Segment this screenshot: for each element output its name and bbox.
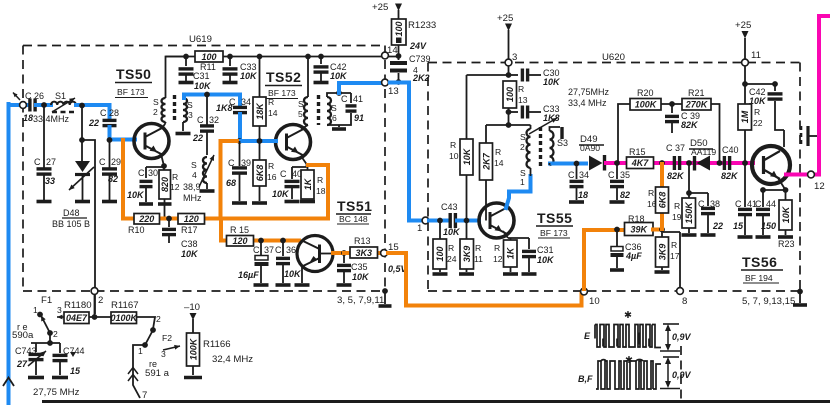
resistor R11 100 — [195, 51, 223, 62]
svg-text:10K: 10K — [284, 269, 302, 279]
node pin 1 — [422, 217, 429, 224]
svg-text:11: 11 — [751, 50, 761, 61]
wire blue to pin 13 — [339, 83, 380, 93]
svg-text:–10: –10 — [184, 302, 200, 313]
svg-text:22: 22 — [88, 118, 99, 128]
resistor R1180 — [57, 316, 64, 318]
svg-text:MHz: MHz — [183, 193, 202, 203]
svg-text:TS51: TS51 — [337, 198, 372, 214]
svg-text:10K: 10K — [462, 147, 472, 165]
transformer core 2 — [317, 95, 320, 125]
svg-text:11: 11 — [474, 254, 483, 264]
svg-text:R1166: R1166 — [203, 339, 231, 350]
svg-text:17: 17 — [670, 251, 680, 261]
capacitor C30 — [140, 180, 153, 183]
svg-text:16: 16 — [647, 199, 657, 209]
svg-text:12: 12 — [170, 182, 180, 192]
svg-text:22: 22 — [192, 133, 203, 143]
svg-text:16: 16 — [267, 172, 277, 182]
measure arrow 0,9V BF — [667, 359, 669, 386]
svg-text:R15: R15 — [629, 147, 646, 157]
capacitor C35 U620 — [614, 160, 620, 166]
svg-text:6K8: 6K8 — [657, 192, 667, 209]
svg-text:100K: 100K — [635, 100, 658, 110]
resistor R18 39K U620 — [625, 223, 654, 236]
svg-text:C: C — [280, 169, 287, 179]
svg-text:BF 173: BF 173 — [268, 88, 296, 98]
svg-text:18K: 18K — [255, 102, 265, 120]
svg-text:S1: S1 — [55, 91, 66, 101]
svg-text:7: 7 — [142, 390, 147, 401]
transistor TS50 — [134, 124, 169, 159]
svg-text:1K: 1K — [303, 177, 313, 190]
svg-text:S: S — [191, 160, 197, 170]
svg-text:82: 82 — [108, 174, 118, 184]
svg-text:S: S — [520, 132, 526, 142]
svg-text:B,F: B,F — [578, 374, 593, 384]
svg-text:C: C — [698, 199, 705, 209]
node pin 10 — [581, 288, 588, 295]
capacitor C38 22 — [686, 190, 692, 196]
svg-text:0,9V: 0,9V — [672, 370, 692, 380]
svg-text:C: C — [735, 199, 742, 209]
svg-text:150K: 150K — [684, 201, 694, 224]
wire orange pin10 up to R18 — [584, 230, 626, 289]
inductor S2 U620 — [509, 125, 531, 129]
wire magenta collector out — [786, 16, 830, 175]
tap arrow — [529, 118, 557, 134]
svg-text:+25: +25 — [735, 20, 751, 31]
svg-text:590a: 590a — [12, 330, 34, 341]
svg-text:C35: C35 — [351, 262, 368, 272]
inductor S3 U620 — [550, 131, 554, 165]
svg-text:6K8: 6K8 — [255, 165, 265, 182]
svg-text:10K: 10K — [543, 77, 561, 87]
svg-text:R21: R21 — [688, 88, 705, 98]
svg-text:100: 100 — [435, 246, 445, 261]
capacitor C27 — [41, 102, 47, 108]
svg-text:32: 32 — [209, 115, 219, 125]
svg-text:37: 37 — [264, 245, 274, 255]
svg-text:C 26: C 26 — [25, 91, 44, 101]
wire blue TS52 base — [237, 138, 243, 144]
transistor TS51 — [297, 236, 333, 272]
svg-text:C31: C31 — [193, 71, 210, 81]
svg-text:3K9: 3K9 — [657, 244, 667, 261]
diode D49 — [589, 156, 603, 171]
svg-text:82: 82 — [620, 190, 630, 200]
svg-text:F2: F2 — [162, 333, 172, 343]
svg-text:8: 8 — [682, 296, 687, 307]
resistor R1167 — [111, 312, 137, 324]
node pin 13 — [382, 79, 389, 86]
svg-text:14: 14 — [268, 108, 278, 118]
svg-text:10K: 10K — [537, 255, 555, 265]
wire orange TS52 emitter tap — [308, 165, 328, 217]
TS50 emitter network — [161, 154, 164, 167]
TS52 collector / S5 — [305, 54, 311, 60]
resistor R10 10K U620 — [467, 74, 509, 76]
resistor R11 3K9 — [464, 218, 470, 224]
svg-text:5, 7, 9,13,15: 5, 7, 9,13,15 — [742, 296, 795, 307]
capacitor C31 — [183, 54, 189, 60]
resistor R12 1K — [504, 240, 518, 267]
inductor S2 — [162, 98, 166, 122]
svg-text:BF 194: BF 194 — [745, 273, 773, 283]
svg-text:13: 13 — [518, 95, 528, 105]
svg-text:R: R — [674, 201, 680, 211]
svg-text:3: 3 — [57, 305, 62, 315]
svg-text:10K: 10K — [443, 227, 461, 237]
resistor R10 220 — [134, 214, 160, 225]
svg-text:41: 41 — [353, 94, 363, 104]
waveform separator dashed line — [680, 346, 682, 399]
TS51 emitter ground — [301, 267, 303, 283]
resistor R23 10K — [785, 190, 787, 200]
switch F2 — [150, 327, 156, 333]
capacitor C36 — [280, 238, 286, 244]
svg-text:100: 100 — [394, 21, 404, 36]
svg-text:C 37: C 37 — [666, 143, 685, 153]
svg-text:36: 36 — [286, 245, 296, 255]
transformer core — [173, 95, 176, 123]
svg-text:3: 3 — [188, 110, 193, 120]
svg-text:R: R — [317, 175, 323, 185]
svg-text:6: 6 — [332, 113, 337, 123]
svg-text:R: R — [450, 140, 456, 150]
svg-text:C743: C743 — [15, 346, 37, 356]
capacitor C39 82K — [671, 104, 673, 113]
svg-text:BF 173: BF 173 — [540, 228, 568, 238]
svg-text:10K: 10K — [127, 190, 145, 200]
wire blue S3 to D49 — [550, 162, 586, 166]
svg-text:TS52: TS52 — [266, 69, 301, 85]
svg-text:270K: 270K — [685, 100, 709, 110]
resistor R16 6K8 — [257, 138, 263, 144]
TS56 emitter network — [763, 178, 786, 190]
svg-text:R10: R10 — [128, 225, 145, 235]
inductor S6 — [327, 97, 331, 125]
inductor S3 — [183, 98, 187, 122]
inductor S1 — [51, 102, 76, 105]
capacitor C42 — [318, 54, 324, 60]
svg-text:33,4 MHz: 33,4 MHz — [568, 98, 607, 108]
svg-text:12: 12 — [814, 181, 825, 192]
resistor R17 120 — [178, 214, 205, 225]
svg-text:33,4MHz: 33,4MHz — [33, 114, 70, 124]
svg-text:R 15: R 15 — [230, 225, 249, 235]
resistor R14 2K7 U620 — [506, 122, 512, 128]
svg-text:04E7: 04E7 — [66, 313, 88, 323]
svg-text:27: 27 — [16, 359, 28, 369]
svg-text:22: 22 — [712, 221, 723, 231]
svg-text:18: 18 — [578, 190, 588, 200]
resistor R16 6K8 U620 — [656, 187, 669, 213]
svg-text:10: 10 — [449, 151, 459, 161]
svg-text:C: C — [138, 168, 145, 178]
svg-text:BF 173: BF 173 — [117, 87, 145, 97]
svg-text:22: 22 — [753, 118, 763, 128]
svg-text:C: C — [608, 170, 615, 180]
svg-text:U619: U619 — [189, 34, 212, 45]
node pin 15 — [381, 250, 388, 257]
svg-text:10K: 10K — [352, 272, 370, 282]
svg-text:C38: C38 — [181, 239, 198, 249]
svg-text:82K: 82K — [681, 120, 699, 130]
inductor S4 — [203, 157, 207, 183]
svg-text:C31: C31 — [537, 245, 554, 255]
svg-text:68: 68 — [226, 178, 236, 188]
svg-text:✱: ✱ — [624, 310, 632, 321]
svg-text:38,9: 38,9 — [183, 182, 201, 192]
svg-text:10K: 10K — [194, 81, 212, 91]
svg-text:TS56: TS56 — [742, 254, 777, 270]
node pin 2 — [91, 288, 98, 295]
resistor R19 150K — [682, 198, 696, 228]
resistor R21 270K — [682, 99, 711, 111]
node pin 8 — [663, 232, 680, 288]
page border bottom — [42, 400, 830, 403]
svg-text:100: 100 — [201, 52, 216, 62]
svg-text:820: 820 — [160, 177, 170, 192]
svg-text:4µF: 4µF — [625, 251, 642, 261]
wire to pin 2 — [79, 137, 85, 143]
capacitor C37 16uF — [258, 238, 264, 244]
svg-text:R: R — [495, 147, 501, 157]
svg-text:C: C — [197, 115, 204, 125]
svg-text:91: 91 — [354, 113, 364, 123]
capacitor C26 — [28, 99, 31, 112]
svg-text:24V: 24V — [409, 41, 427, 51]
resistor R18 1K — [301, 170, 314, 199]
measure arrow 0,9V E — [667, 326, 669, 349]
svg-text:U620: U620 — [602, 52, 625, 63]
diode D50 — [693, 156, 696, 171]
capacitor C30 U620 — [509, 74, 519, 76]
svg-text:3K3: 3K3 — [355, 248, 372, 258]
module U619 dashed box — [23, 45, 385, 47]
svg-text:R: R — [671, 240, 677, 250]
svg-text:2K7: 2K7 — [481, 152, 491, 171]
orange drop to R16 — [659, 160, 665, 166]
svg-text:1K: 1K — [506, 246, 516, 259]
feedthrough capacitor — [806, 126, 809, 146]
svg-text:1: 1 — [417, 223, 422, 234]
svg-text:1: 1 — [138, 346, 143, 356]
svg-text:4: 4 — [192, 170, 197, 180]
crystal re590a C743 C744 — [31, 333, 60, 343]
svg-text:10K: 10K — [749, 96, 767, 106]
svg-text:2K2: 2K2 — [412, 73, 430, 83]
svg-text:82K: 82K — [721, 171, 739, 181]
svg-text:AA119: AA119 — [691, 147, 716, 157]
svg-text:R17: R17 — [181, 225, 198, 235]
svg-text:S3: S3 — [557, 138, 568, 148]
svg-text:16µF: 16µF — [238, 270, 259, 280]
svg-text:82K: 82K — [667, 171, 685, 181]
capacitor C41 loop — [327, 93, 351, 103]
capacitor C33 — [227, 54, 233, 60]
svg-text:3, 5, 7,9,11: 3, 5, 7,9,11 — [337, 295, 384, 306]
svg-text:12: 12 — [493, 254, 503, 264]
varicap D48 — [79, 103, 85, 109]
svg-text:R: R — [648, 188, 654, 198]
svg-text:R: R — [475, 243, 481, 253]
resistor R15 4K7 U620 — [627, 157, 654, 169]
module U620 dashed box — [428, 62, 800, 64]
svg-text:S: S — [153, 97, 159, 107]
svg-text:2: 2 — [53, 329, 58, 339]
capacitor C32 — [204, 92, 210, 98]
svg-text:2: 2 — [153, 107, 158, 117]
TS55 emitter network — [503, 231, 529, 238]
svg-text:120: 120 — [184, 214, 199, 224]
resistor R14 18K — [257, 54, 263, 60]
svg-text:R11: R11 — [200, 62, 216, 72]
svg-text:C: C — [275, 245, 282, 255]
wire pin2 down — [94, 295, 96, 318]
svg-text:39: 39 — [241, 158, 251, 168]
wire blue input line — [7, 104, 11, 405]
svg-text:D48: D48 — [63, 208, 80, 218]
svg-text:R: R — [518, 84, 524, 94]
wire blue pin13 to pin1 — [390, 83, 421, 221]
svg-text:C: C — [228, 158, 235, 168]
capacitor C34 series — [238, 95, 242, 106]
junction to R19 — [686, 160, 692, 166]
svg-text:1: 1 — [520, 177, 525, 187]
svg-text:C 28: C 28 — [100, 108, 119, 118]
svg-text:BC 148: BC 148 — [339, 214, 368, 224]
capacitor C38 — [166, 216, 172, 222]
svg-text:R23: R23 — [778, 239, 795, 249]
capacitor C41 U620 — [744, 163, 746, 207]
resistor R17 3K9 U620 — [659, 227, 665, 233]
svg-text:R18: R18 — [628, 214, 645, 224]
svg-text:C: C — [341, 94, 348, 104]
svg-text:1K8: 1K8 — [216, 103, 233, 113]
svg-text:3K9: 3K9 — [462, 246, 472, 263]
svg-text:220: 220 — [138, 214, 154, 224]
svg-text:3: 3 — [512, 52, 517, 63]
svg-text:✱: ✱ — [625, 355, 633, 366]
svg-text:18: 18 — [316, 186, 326, 196]
resistor R12 820 — [163, 167, 165, 170]
svg-text:5: 5 — [298, 109, 303, 119]
svg-text:R: R — [448, 243, 454, 253]
svg-text:33: 33 — [45, 176, 55, 186]
svg-text:C: C — [99, 157, 106, 167]
resistor R22 1M — [742, 160, 748, 166]
capacitor C34 U620 — [574, 161, 580, 167]
svg-text:TS55: TS55 — [537, 210, 572, 226]
svg-text:0A90: 0A90 — [580, 143, 600, 153]
svg-text:38: 38 — [710, 199, 720, 209]
svg-text:0100K: 0100K — [110, 313, 138, 323]
svg-text:C: C — [253, 245, 260, 255]
svg-text:44: 44 — [766, 199, 776, 209]
svg-text:+25: +25 — [497, 13, 513, 24]
svg-text:2: 2 — [98, 295, 103, 306]
svg-text:19: 19 — [672, 212, 682, 222]
capacitor C37 82K — [673, 156, 676, 170]
TS50 collector to S2 — [162, 123, 166, 129]
capacitor C35 — [333, 251, 345, 255]
svg-text:13: 13 — [388, 86, 399, 97]
wire +V rail U619 — [166, 56, 398, 58]
inductor S5 — [304, 97, 308, 125]
svg-text:C: C — [755, 199, 762, 209]
svg-text:32,4 MHz: 32,4 MHz — [212, 354, 253, 365]
capacitor C43 — [429, 219, 448, 223]
svg-text:100: 100 — [505, 87, 515, 102]
svg-text:27,75 MHz: 27,75 MHz — [33, 387, 80, 398]
svg-text:27: 27 — [46, 157, 56, 167]
node pin on U619 edge — [20, 102, 27, 109]
svg-text:10: 10 — [589, 296, 600, 307]
svg-text:R: R — [494, 243, 500, 253]
svg-text:2: 2 — [520, 142, 525, 152]
svg-text:2: 2 — [156, 314, 161, 324]
node pin 14 — [382, 52, 389, 59]
svg-text:35: 35 — [620, 170, 630, 180]
svg-text:120: 120 — [232, 236, 247, 246]
svg-text:10K: 10K — [272, 189, 290, 199]
svg-text:TS50: TS50 — [116, 66, 151, 82]
svg-text:+25: +25 — [372, 2, 388, 13]
capacitor C33 U620 — [509, 111, 519, 113]
svg-text:R13: R13 — [354, 236, 371, 246]
svg-text:S: S — [331, 103, 337, 113]
svg-text:BB 105 B: BB 105 B — [52, 219, 90, 229]
svg-text:14: 14 — [494, 158, 504, 168]
svg-text:C739: C739 — [409, 54, 431, 64]
svg-text:R: R — [172, 172, 178, 182]
svg-text:15: 15 — [70, 366, 81, 376]
svg-text:R: R — [754, 107, 760, 117]
capacitor C44 — [760, 187, 766, 193]
transistor TS52 — [276, 125, 311, 160]
svg-text:S: S — [298, 99, 304, 109]
wire orange AGC row — [123, 140, 328, 241]
svg-text:1: 1 — [33, 305, 38, 315]
capacitor C40 82K — [723, 156, 726, 170]
capacitor C31 U620 — [528, 238, 530, 249]
capacitor C39 68 — [239, 141, 241, 166]
capacitor C36 4uF U620 — [614, 227, 620, 233]
wire magenta main — [606, 161, 753, 165]
capacitor C29 — [107, 137, 113, 143]
transistor TS55 — [479, 203, 514, 238]
transformer core U620 — [539, 127, 542, 168]
input arrow marks — [13, 93, 20, 101]
TS52 emitter network — [301, 156, 307, 167]
svg-text:150: 150 — [761, 221, 776, 231]
svg-text:10K: 10K — [240, 71, 258, 81]
svg-text:39K: 39K — [630, 224, 648, 234]
resistor R15 120 — [227, 236, 254, 247]
svg-text:E: E — [584, 331, 591, 341]
svg-text:C40: C40 — [722, 145, 739, 155]
resistor R20 100K — [618, 104, 630, 163]
svg-text:S: S — [187, 100, 193, 110]
svg-text:18: 18 — [23, 113, 33, 123]
resistor R13 3K3 — [344, 251, 380, 255]
wire blue TS55 collector — [506, 176, 531, 208]
svg-text:10K: 10K — [330, 71, 348, 81]
wire blue S3 top — [184, 95, 240, 99]
svg-text:591 a: 591 a — [145, 368, 170, 379]
